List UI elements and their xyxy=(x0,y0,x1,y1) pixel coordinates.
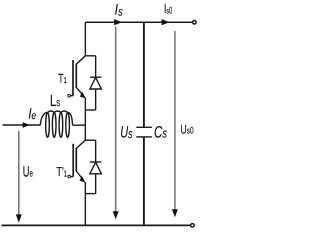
wire: D1 bottom connector to emitter line xyxy=(85,109,95,111)
wire: T'1 emitter down to bottom rail xyxy=(84,182,86,225)
capacitor Cs bottom lead xyxy=(143,137,145,225)
voltage arrow Us (head) xyxy=(113,211,119,219)
voltage arrow Ue (line) xyxy=(18,131,20,219)
voltage arrow Us0 (head) xyxy=(172,209,178,217)
diode D1 (antiparallel with T1) xyxy=(90,56,102,110)
wire: collector riser of T1 from top rail xyxy=(84,22,86,56)
gate terminal circle of T'1 xyxy=(68,175,71,178)
voltage arrow Us (line) xyxy=(115,27,117,215)
wire: top rail (+ bus) xyxy=(85,21,192,23)
svg-text:Ue: Ue xyxy=(23,163,33,180)
svg-text:Us0: Us0 xyxy=(180,122,193,136)
svg-text:Ls: Ls xyxy=(50,93,60,110)
current arrow Is xyxy=(114,19,122,25)
wire: connector riser to diode D1 top xyxy=(85,55,95,57)
svg-text:Us: Us xyxy=(120,124,132,142)
wire: connector riser to diode D'1 top xyxy=(85,139,95,141)
svg-text:T1: T1 xyxy=(58,72,67,86)
capacitor Cs top lead xyxy=(143,22,145,127)
svg-text:Is0: Is0 xyxy=(164,1,172,16)
transistor T'1 (IGBT) xyxy=(71,140,86,182)
voltage arrow Us0 (line) xyxy=(174,31,176,213)
svg-text:Ie: Ie xyxy=(28,106,36,123)
diode D'1 (antiparallel with T'1) xyxy=(90,140,102,193)
inductor Ls (coil loops) xyxy=(46,113,50,138)
wire: input wire (left, to inductor) xyxy=(3,124,41,126)
voltage arrow Ue (head) xyxy=(16,214,22,222)
svg-text:Cs: Cs xyxy=(154,123,167,141)
terminal: output top (open circle) xyxy=(193,21,197,25)
svg-text:T'1: T'1 xyxy=(56,164,67,179)
wire: inductor to midpoint node xyxy=(73,124,86,126)
current arrow Ie xyxy=(23,122,30,128)
capacitor Cs plates xyxy=(136,126,152,128)
wire: T1 emitter down to midpoint node and T'1 collector riser xyxy=(84,98,86,141)
svg-text:Is: Is xyxy=(115,2,123,19)
gate terminal circle of T1 xyxy=(68,94,71,97)
terminal: output bottom (open circle) xyxy=(191,224,195,228)
wire: bottom rail (- bus) xyxy=(2,224,191,226)
current arrow Is0 xyxy=(162,19,170,25)
wire: D'1 bottom connector to emitter line xyxy=(85,193,95,195)
transistor T1 (IGBT) xyxy=(70,56,86,99)
